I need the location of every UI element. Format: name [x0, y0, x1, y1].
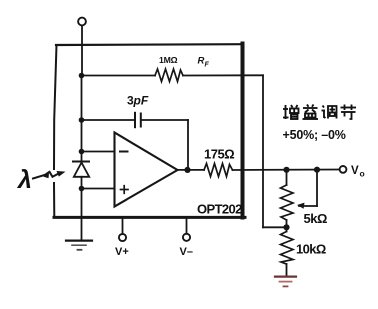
svg-text:175Ω: 175Ω — [204, 147, 234, 162]
wire: rail RF node to cap node — [81, 76, 83, 121]
capacitor C1 3pF — [82, 113, 189, 170]
wire: non-inverting input — [82, 188, 115, 190]
svg-text:pF: pF — [133, 94, 149, 108]
terminal V+ — [119, 219, 126, 241]
node: pot top junction — [283, 167, 289, 173]
light arrow into photodiode — [33, 171, 66, 179]
wire: rail cap node to diode top — [81, 120, 83, 161]
ground (right) — [275, 277, 296, 287]
annotation: gain adjust (Chinese 增益调节) — [283, 105, 356, 120]
svg-text:10kΩ: 10kΩ — [296, 242, 326, 257]
char 节 — [341, 105, 357, 120]
wire: rail diode to ground — [81, 177, 83, 240]
potentiometer 5kΩ — [281, 170, 294, 232]
svg-text:V: V — [351, 165, 359, 177]
svg-text:+50%; –0%: +50%; –0% — [283, 128, 346, 142]
char 益 — [303, 105, 319, 120]
node: inverting input junction — [79, 149, 85, 155]
node: non-inverting input junction — [79, 186, 85, 192]
svg-text:1MΩ: 1MΩ — [159, 55, 178, 65]
op-amp U1 — [115, 133, 178, 207]
svg-text:V–: V– — [180, 246, 193, 258]
resistor R2 10kΩ — [281, 232, 294, 277]
svg-text:F: F — [205, 62, 210, 69]
wiper of 5kΩ pot — [297, 170, 317, 209]
terminal: top feedback pin — [78, 18, 86, 75]
wire: op-amp output — [178, 169, 205, 171]
char 增 — [283, 105, 299, 119]
resistor RF 1MΩ — [82, 69, 264, 82]
ground (left) — [66, 241, 92, 250]
node: wiper junction — [314, 167, 320, 173]
OPT202 package box — [54, 44, 245, 218]
node: RF branch junction — [79, 73, 85, 79]
svg-text:5kΩ: 5kΩ — [304, 211, 327, 226]
svg-text:V+: V+ — [115, 246, 129, 258]
char 调 — [322, 106, 337, 119]
wire: inverting input — [82, 151, 115, 153]
wire: RF to gain-set node — [263, 75, 287, 227]
node: cap branch junction — [79, 117, 85, 123]
svg-text:R: R — [198, 56, 205, 67]
svg-text:λ: λ — [16, 166, 32, 194]
svg-text:o: o — [360, 169, 365, 179]
svg-text:OPT202: OPT202 — [197, 202, 242, 217]
photodiode D1 — [73, 162, 89, 177]
node: output junction — [184, 167, 190, 173]
terminal V- — [183, 219, 190, 241]
terminal: Vo output — [340, 166, 347, 173]
resistor R1 175Ω — [204, 164, 339, 177]
node: 5k/10k junction — [283, 224, 289, 230]
